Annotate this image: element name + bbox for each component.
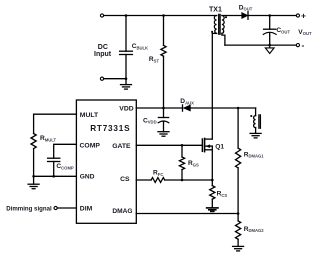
svg-text:DIM: DIM bbox=[80, 206, 93, 213]
diode DOUT bbox=[242, 12, 296, 20]
svg-text:CVDD: CVDD bbox=[143, 117, 157, 124]
node junction CCOMP/GND bbox=[52, 175, 55, 178]
svg-text:RST: RST bbox=[149, 56, 160, 63]
wire COMP pin bbox=[54, 144, 77, 158]
ground below CVDD bbox=[158, 132, 169, 137]
capacitor COUT bbox=[263, 16, 276, 46]
transformer TX1 core bbox=[219, 14, 220, 34]
svg-text:GND: GND bbox=[80, 173, 95, 180]
svg-text:TX1: TX1 bbox=[209, 7, 222, 14]
svg-text:RCS: RCS bbox=[217, 191, 228, 198]
svg-text:CBULK: CBULK bbox=[132, 43, 148, 50]
node DC+ input terminal bbox=[100, 14, 103, 17]
op-amp U1 IC RT7331S box bbox=[76, 100, 136, 223]
diode DAUX bbox=[183, 105, 191, 111]
svg-text:RGS: RGS bbox=[188, 160, 199, 167]
node junction COUT bottom / ground bbox=[268, 44, 271, 47]
svg-text:VOUT: VOUT bbox=[298, 29, 312, 36]
node junction RDMAG1 top bbox=[237, 107, 240, 110]
wire DC- to CBULK bottom bbox=[104, 78, 126, 80]
resistor RST bbox=[161, 16, 166, 108]
resistor RFC bbox=[151, 178, 165, 183]
node junction RGS bottom / CS wire bbox=[181, 179, 184, 182]
svg-text:CCOMP: CCOMP bbox=[56, 163, 74, 170]
ground below RMULT bbox=[28, 176, 39, 188]
svg-text:DMAG: DMAG bbox=[112, 208, 132, 215]
wire GND pin bbox=[34, 175, 77, 177]
capacitor CCOMP bbox=[48, 158, 60, 176]
wire Q1 drain / primary bottom bbox=[211, 33, 213, 139]
wire DMAG from IC bbox=[136, 213, 238, 215]
transformer TX1 secondary winding bbox=[222, 16, 242, 46]
ground output (open triangle) bbox=[265, 45, 274, 53]
node junction CS/RCS/Q1 source bbox=[211, 179, 214, 182]
wire GATE pin bbox=[136, 144, 202, 146]
wire MULT pin bbox=[34, 114, 77, 133]
svg-text:Q1: Q1 bbox=[215, 143, 224, 150]
resistor RMULT bbox=[31, 134, 36, 177]
node junction RST on top rail bbox=[162, 14, 165, 17]
svg-text:RFC: RFC bbox=[153, 170, 163, 177]
node phase dot aux winding bbox=[250, 115, 252, 117]
ground below aux winding bbox=[250, 133, 261, 138]
capacitor CBULK bbox=[120, 16, 133, 85]
ground below RDMAG2 bbox=[233, 246, 244, 251]
svg-text:RDMAG1: RDMAG1 bbox=[244, 151, 265, 158]
resistor RDMAG1 bbox=[236, 108, 241, 214]
svg-text:RMULT: RMULT bbox=[40, 135, 57, 142]
resistor RDMAG2 bbox=[236, 214, 241, 247]
resistor RCS bbox=[210, 180, 215, 208]
node junction RMULT/GND bbox=[32, 175, 35, 178]
node junction VDD/RST/CVDD bbox=[162, 107, 165, 110]
wire VDD rail from IC to aux bbox=[136, 107, 182, 109]
node junction bulk cap on top rail bbox=[125, 14, 128, 17]
node DC- input terminal bbox=[100, 77, 103, 80]
node phase dot primary bottom bbox=[211, 31, 213, 33]
svg-text:Input: Input bbox=[94, 51, 112, 58]
svg-text:GATE: GATE bbox=[112, 143, 131, 150]
node phase dot secondary top bbox=[225, 16, 227, 18]
ground below CBULK bbox=[121, 85, 132, 90]
svg-text:CS: CS bbox=[120, 176, 130, 183]
svg-text:MULT: MULT bbox=[80, 112, 99, 119]
resistor RGS bbox=[179, 145, 184, 180]
node junction DMAG/RDMAG1/RDMAG2 bbox=[237, 212, 240, 215]
winding auxiliary of TX1 bbox=[254, 108, 261, 133]
node VOUT- terminal bbox=[296, 44, 299, 47]
svg-text:VDD: VDD bbox=[119, 105, 133, 112]
transistor Q1 MOSFET bbox=[202, 138, 212, 180]
wire DIM pin bbox=[57, 207, 76, 209]
svg-text:COUT: COUT bbox=[276, 27, 290, 34]
transformer TX1 primary winding bbox=[212, 16, 216, 34]
wire CS pin bbox=[136, 179, 151, 181]
svg-text:RDMAG2: RDMAG2 bbox=[244, 226, 265, 233]
svg-text:DOUT: DOUT bbox=[239, 4, 253, 11]
node junction RGS top bbox=[181, 144, 184, 147]
node VOUT+ terminal bbox=[296, 14, 299, 17]
capacitor CVDD bbox=[158, 108, 169, 132]
wire CS to Q1 source bbox=[165, 179, 213, 181]
node junction DC- / CBULK bbox=[125, 77, 128, 80]
node Dimming signal terminal bbox=[54, 206, 57, 209]
svg-text:-: - bbox=[302, 40, 305, 50]
svg-text:Dimming signal: Dimming signal bbox=[6, 205, 52, 212]
svg-text:COMP: COMP bbox=[80, 143, 101, 150]
svg-text:RT7331S: RT7331S bbox=[90, 124, 130, 133]
wire top rail bulk to transformer primary bbox=[104, 15, 217, 17]
wire output bottom rail bbox=[225, 44, 296, 46]
node output top junction bbox=[268, 14, 271, 17]
svg-text:+: + bbox=[301, 11, 306, 21]
ground below RCS (heavy) bbox=[207, 208, 218, 212]
svg-text:DAUX: DAUX bbox=[180, 98, 194, 105]
